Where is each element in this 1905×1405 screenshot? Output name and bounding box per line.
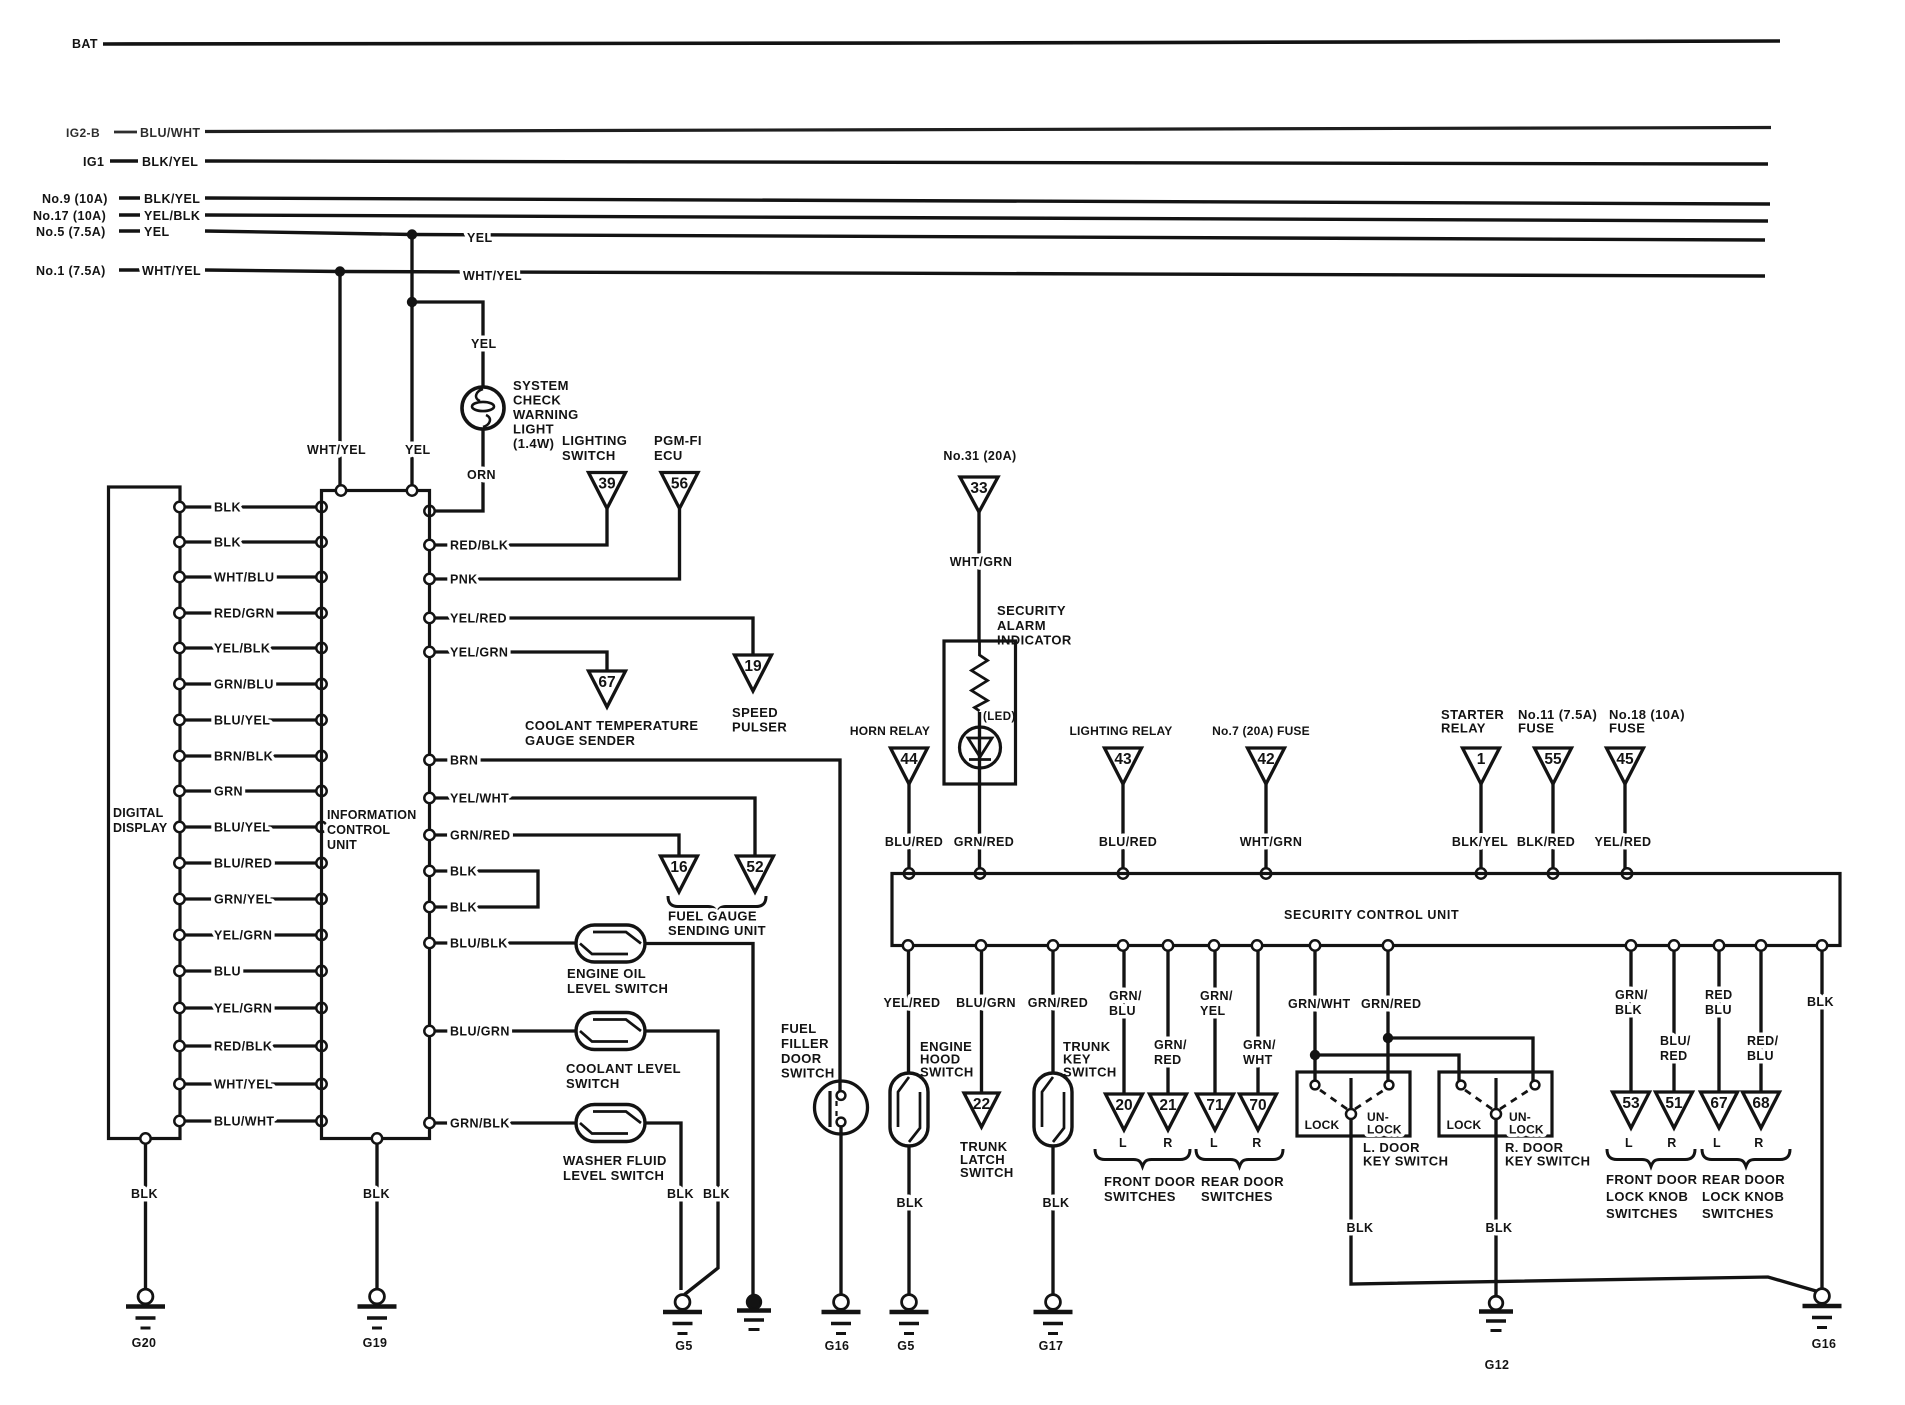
- wire BLU/RED to connector 51: [1660, 940, 1691, 1092]
- svg-text:BLU/WHT: BLU/WHT: [214, 1115, 274, 1129]
- svg-text:WHT/GRN: WHT/GRN: [950, 555, 1013, 569]
- svg-text:BLU/BLK: BLU/BLK: [450, 937, 508, 951]
- svg-text:53: 53: [1622, 1095, 1640, 1112]
- svg-text:R: R: [1252, 1136, 1261, 1150]
- svg-text:67: 67: [1710, 1095, 1727, 1112]
- svg-text:44: 44: [900, 751, 918, 768]
- wire BLK L door key to G16: [1347, 1119, 1816, 1291]
- svg-text:BLK: BLK: [897, 1196, 924, 1210]
- svg-text:WARNING: WARNING: [513, 407, 579, 422]
- svg-text:YEL/GRN: YEL/GRN: [214, 1002, 272, 1016]
- svg-text:BLU: BLU: [1109, 1004, 1136, 1018]
- svg-text:LOCK: LOCK: [1305, 1118, 1340, 1132]
- wire BLU/YEL display-to-ICU row: [174, 821, 326, 835]
- connector 20 front door switch L: [1106, 1094, 1143, 1150]
- svg-text:LIGHT: LIGHT: [513, 422, 554, 437]
- wire GRN/BLU to connector 20: [1109, 940, 1142, 1094]
- svg-text:YEL/BLK: YEL/BLK: [144, 209, 200, 223]
- wire BLU/RED display-to-ICU row: [174, 857, 326, 871]
- connector 51 front door lock knob R: [1656, 1092, 1693, 1150]
- brace front door lock knob switches: [1606, 1149, 1698, 1221]
- wire WHT/YEL display-to-ICU row: [174, 1078, 326, 1092]
- svg-text:FUSE: FUSE: [1609, 721, 1645, 736]
- svg-text:SWITCH: SWITCH: [1063, 1065, 1117, 1080]
- wire YEL/GRN display-to-ICU row: [174, 1002, 326, 1016]
- svg-text:ECU: ECU: [654, 448, 683, 463]
- svg-text:SWITCH: SWITCH: [781, 1066, 835, 1081]
- svg-text:BLU: BLU: [1705, 1003, 1732, 1017]
- svg-text:BLU/GRN: BLU/GRN: [450, 1025, 510, 1039]
- svg-text:YEL/RED: YEL/RED: [884, 996, 941, 1010]
- brace front door switches: [1095, 1149, 1196, 1204]
- wire BRN/BLK display-to-ICU row: [174, 750, 326, 764]
- LED: [960, 711, 1016, 874]
- svg-text:LOCK KNOB: LOCK KNOB: [1702, 1189, 1784, 1204]
- svg-text:BLK: BLK: [363, 1187, 390, 1201]
- svg-text:COOLANT LEVEL: COOLANT LEVEL: [566, 1061, 681, 1076]
- label No.7 (20A) fuse: [1212, 724, 1310, 738]
- svg-text:SWITCH: SWITCH: [960, 1165, 1014, 1180]
- connector 22 trunk latch switch: [964, 1093, 999, 1127]
- security alarm indicator box: [944, 641, 1016, 784]
- svg-text:39: 39: [598, 476, 616, 493]
- svg-text:BLU: BLU: [1747, 1049, 1774, 1063]
- svg-text:HORN RELAY: HORN RELAY: [850, 724, 930, 738]
- svg-text:G16: G16: [825, 1339, 850, 1353]
- node No.1 (7.5A) fuse: [36, 264, 201, 278]
- svg-text:RED: RED: [1154, 1053, 1182, 1067]
- svg-text:BLU/RED: BLU/RED: [1099, 835, 1157, 849]
- svg-text:YEL: YEL: [405, 443, 431, 457]
- wire YEL/GRN display-to-ICU row: [174, 929, 326, 943]
- svg-text:BLU: BLU: [214, 965, 241, 979]
- svg-text:WHT/BLU: WHT/BLU: [214, 571, 274, 585]
- svg-text:FRONT DOOR: FRONT DOOR: [1606, 1172, 1698, 1187]
- wire YEL branch to warning light: [412, 302, 497, 388]
- svg-text:DISPLAY: DISPLAY: [113, 821, 168, 835]
- label No.18 (10A) fuse: [1609, 707, 1685, 736]
- svg-text:68: 68: [1752, 1095, 1770, 1112]
- wire PNK to PGM-FI ECU: [424, 509, 679, 587]
- label L door key switch: [1363, 1140, 1448, 1169]
- svg-text:KEY SWITCH: KEY SWITCH: [1505, 1154, 1590, 1169]
- svg-text:RED/BLK: RED/BLK: [214, 1040, 272, 1054]
- svg-text:70: 70: [1249, 1097, 1266, 1114]
- svg-text:PULSER: PULSER: [732, 720, 787, 735]
- svg-text:IG1: IG1: [83, 155, 104, 169]
- wire No.5 YEL bus: [205, 231, 1765, 245]
- svg-text:R: R: [1754, 1136, 1763, 1150]
- wire YEL/RED to engine hood switch: [884, 940, 941, 1073]
- svg-text:GRN/WHT: GRN/WHT: [1288, 997, 1351, 1011]
- svg-text:SENDING UNIT: SENDING UNIT: [668, 923, 766, 938]
- ground G5: [663, 1295, 702, 1353]
- svg-text:BLK: BLK: [1486, 1221, 1513, 1235]
- svg-text:DOOR: DOOR: [781, 1051, 822, 1066]
- svg-text:BLK: BLK: [1043, 1196, 1070, 1210]
- svg-text:YEL/RED: YEL/RED: [450, 612, 507, 626]
- svg-text:BLU/: BLU/: [1660, 1034, 1691, 1048]
- ground G16: [822, 1295, 861, 1353]
- svg-text:LOCK: LOCK: [1367, 1123, 1402, 1137]
- svg-text:FILLER: FILLER: [781, 1036, 829, 1051]
- wire BLU/YEL display-to-ICU row: [174, 714, 326, 728]
- svg-text:SECURITY: SECURITY: [997, 603, 1066, 618]
- switch L door key: [1297, 1072, 1410, 1137]
- junction WHT/YEL tap: [335, 266, 345, 276]
- wire IG2-B BLU/WHT bus: [205, 128, 1771, 132]
- svg-text:L: L: [1713, 1136, 1721, 1150]
- wire BLU display-to-ICU row: [174, 965, 326, 979]
- svg-text:SYSTEM: SYSTEM: [513, 378, 569, 393]
- svg-text:BLK: BLK: [667, 1187, 694, 1201]
- svg-text:SWITCHES: SWITCHES: [1201, 1189, 1273, 1204]
- node BAT: [72, 37, 98, 51]
- svg-text:G5: G5: [675, 1339, 692, 1353]
- wire YEL/GRN to coolant temperature sender: [424, 646, 607, 672]
- brace rear door switches: [1196, 1149, 1284, 1204]
- connector 55 fuse: [1535, 748, 1572, 784]
- security control unit box: [892, 874, 1840, 946]
- node No.9 (10A) fuse: [42, 192, 200, 206]
- svg-text:YEL/WHT: YEL/WHT: [450, 792, 509, 806]
- ground (engine oil level switch): [737, 1295, 771, 1329]
- resistor: [972, 641, 988, 711]
- svg-text:YEL: YEL: [471, 337, 497, 351]
- wire GRN/YEL display-to-ICU row: [174, 893, 326, 907]
- svg-text:ENGINE OIL: ENGINE OIL: [567, 966, 646, 981]
- svg-text:YEL: YEL: [1200, 1004, 1226, 1018]
- svg-text:WASHER FLUID: WASHER FLUID: [563, 1153, 667, 1168]
- svg-text:BLU/WHT: BLU/WHT: [140, 126, 200, 140]
- wire GRN/RED to door key switches: [1361, 940, 1533, 1081]
- connector 44 horn relay: [891, 748, 928, 784]
- svg-text:SWITCH: SWITCH: [920, 1065, 974, 1080]
- information control unit box: [322, 485, 430, 1138]
- svg-text:RED/GRN: RED/GRN: [214, 607, 274, 621]
- ground G20: [126, 1133, 165, 1350]
- wire IG1 BLK/YEL bus: [205, 161, 1768, 164]
- wire GRN/WHT to door key switches: [1288, 940, 1459, 1081]
- wire GRN/RED to trunk key switch: [1028, 940, 1088, 1073]
- svg-text:BLK: BLK: [1615, 1003, 1642, 1017]
- wire GRN/RED to fuel gauge: [424, 829, 679, 857]
- connector 33: [960, 477, 998, 512]
- connector 53 front door lock knob L: [1613, 1092, 1650, 1150]
- svg-text:GRN/RED: GRN/RED: [1028, 996, 1088, 1010]
- svg-text:19: 19: [744, 658, 762, 675]
- svg-text:LEVEL SWITCH: LEVEL SWITCH: [567, 981, 668, 996]
- wire GRN/YEL to connector 71: [1200, 940, 1233, 1094]
- wire ORN lamp to control unit: [424, 429, 496, 516]
- wire BLK jumper: [424, 865, 538, 915]
- svg-text:33: 33: [970, 480, 988, 497]
- wire No.17 YEL/BLK bus: [205, 215, 1768, 221]
- svg-text:R: R: [1163, 1136, 1172, 1150]
- wire No.1 WHT/YEL bus: [205, 269, 1765, 283]
- svg-text:LOCK KNOB: LOCK KNOB: [1606, 1189, 1688, 1204]
- svg-text:No.31 (20A): No.31 (20A): [943, 449, 1016, 463]
- wire BLK R door key to G12: [1486, 1119, 1513, 1296]
- junction YEL tap: [407, 229, 417, 239]
- label lighting switch: [562, 433, 627, 463]
- svg-text:52: 52: [746, 859, 763, 876]
- wire YEL/RED fuse to SCU: [1595, 784, 1652, 879]
- svg-text:45: 45: [1616, 751, 1634, 768]
- svg-text:BLK: BLK: [131, 1187, 158, 1201]
- node IG2-B (faded): [66, 126, 200, 140]
- svg-text:RELAY: RELAY: [1441, 721, 1486, 736]
- wire BLU/RED horn relay to SCU: [885, 784, 943, 879]
- connector 45 fuse: [1607, 748, 1644, 784]
- svg-text:UNIT: UNIT: [327, 838, 357, 852]
- svg-text:56: 56: [671, 476, 689, 493]
- svg-text:GRN/: GRN/: [1243, 1038, 1276, 1052]
- svg-text:SWITCHES: SWITCHES: [1702, 1206, 1774, 1221]
- svg-text:LOCK: LOCK: [1447, 1118, 1482, 1132]
- svg-text:BLK/YEL: BLK/YEL: [142, 155, 198, 169]
- svg-text:22: 22: [973, 1096, 990, 1113]
- svg-text:GRN/: GRN/: [1615, 988, 1648, 1002]
- wire YEL/WHT to fuel gauge: [424, 792, 755, 857]
- svg-text:LOCK: LOCK: [1509, 1123, 1544, 1137]
- svg-text:BLU/YEL: BLU/YEL: [214, 821, 270, 835]
- wire BLK SCU to G16: [1807, 940, 1834, 1289]
- connector 71 rear door switch L: [1197, 1094, 1234, 1150]
- svg-text:L: L: [1210, 1136, 1218, 1150]
- wire BLK/YEL starter relay to SCU: [1452, 784, 1508, 879]
- svg-text:71: 71: [1206, 1097, 1224, 1114]
- connector 16 fuel gauge: [661, 856, 698, 892]
- svg-text:G19: G19: [363, 1336, 388, 1350]
- wire fuel filler switch to ground: [839, 1127, 842, 1295]
- node No.5 (7.5A) fuse: [36, 225, 170, 239]
- svg-text:BLK: BLK: [1347, 1221, 1374, 1235]
- wire RED/GRN display-to-ICU row: [174, 607, 326, 621]
- svg-text:51: 51: [1665, 1095, 1683, 1112]
- svg-text:RED: RED: [1660, 1049, 1688, 1063]
- switch engine oil level: [567, 925, 753, 1295]
- wire GRN/RED to connector 21: [1154, 940, 1187, 1094]
- wire GRN/WHT to connector 70: [1243, 940, 1276, 1094]
- svg-text:PNK: PNK: [450, 573, 478, 587]
- wire RED/BLU to connector 68: [1747, 940, 1779, 1092]
- brace rear door lock knob switches: [1702, 1149, 1790, 1221]
- wire GRN/BLU display-to-ICU row: [174, 678, 326, 692]
- svg-text:BLK: BLK: [450, 901, 477, 915]
- svg-text:GRN/: GRN/: [1200, 989, 1233, 1003]
- wire BLU/GRN to coolant level switch: [424, 1025, 578, 1039]
- svg-text:L: L: [1119, 1136, 1127, 1150]
- svg-text:INFORMATION: INFORMATION: [327, 808, 416, 822]
- switch R door key: [1439, 1072, 1552, 1137]
- connector 21 front door switch R: [1150, 1094, 1187, 1150]
- label lighting relay: [1069, 724, 1172, 738]
- digital display box: [109, 487, 181, 1139]
- svg-text:KEY SWITCH: KEY SWITCH: [1363, 1154, 1448, 1169]
- svg-text:L: L: [1625, 1136, 1633, 1150]
- wire RED BLU to connector 67: [1705, 940, 1733, 1092]
- svg-text:BAT: BAT: [72, 37, 98, 51]
- svg-text:No.5 (7.5A): No.5 (7.5A): [36, 225, 106, 239]
- svg-text:SPEED: SPEED: [732, 705, 778, 720]
- svg-text:BLK: BLK: [703, 1187, 730, 1201]
- svg-text:IG2-B: IG2-B: [66, 126, 100, 140]
- svg-text:(1.4W): (1.4W): [513, 436, 554, 451]
- wire GRN/BLK to washer fluid level switch: [424, 1117, 578, 1131]
- svg-text:GRN/: GRN/: [1154, 1038, 1187, 1052]
- switch engine hood: [890, 1073, 928, 1295]
- svg-text:No.17 (10A): No.17 (10A): [33, 209, 106, 223]
- svg-text:1: 1: [1477, 751, 1486, 768]
- wire BLU/RED lighting relay to SCU: [1099, 784, 1157, 879]
- svg-text:FUEL GAUGE: FUEL GAUGE: [668, 909, 757, 924]
- svg-text:GRN/RED: GRN/RED: [1361, 997, 1421, 1011]
- svg-text:GRN/RED: GRN/RED: [450, 829, 510, 843]
- svg-text:BLU/GRN: BLU/GRN: [956, 996, 1016, 1010]
- wire BRN to fuel filler door switch: [424, 754, 840, 1092]
- svg-text:BLK/RED: BLK/RED: [1517, 835, 1575, 849]
- wire WHT/GRN fuse to SCU: [1240, 784, 1303, 879]
- wire BLU/BLK to engine oil level switch: [424, 937, 578, 951]
- svg-text:GRN: GRN: [214, 785, 243, 799]
- wire RED/BLK to lighting switch: [424, 509, 607, 553]
- svg-text:LIGHTING RELAY: LIGHTING RELAY: [1069, 724, 1172, 738]
- svg-text:GRN/BLU: GRN/BLU: [214, 678, 274, 692]
- svg-text:WHT: WHT: [1243, 1053, 1273, 1067]
- label system check warning light: [513, 378, 579, 451]
- svg-text:BLK: BLK: [214, 501, 241, 515]
- svg-text:BLU/RED: BLU/RED: [885, 835, 943, 849]
- wire WHT/GRN to alarm indicator: [950, 512, 1013, 641]
- svg-text:SECURITY CONTROL UNIT: SECURITY CONTROL UNIT: [1284, 908, 1459, 922]
- wire RED/BLK display-to-ICU row: [174, 1040, 326, 1054]
- wire GRN/RED alarm to SCU: [954, 835, 1014, 879]
- wire YEL/RED to speed pulser: [424, 612, 753, 656]
- svg-text:BLK: BLK: [214, 536, 241, 550]
- label PGM-FI ECU: [654, 433, 702, 463]
- label security alarm indicator: [997, 603, 1072, 648]
- svg-text:FUEL: FUEL: [781, 1021, 817, 1036]
- svg-text:REAR DOOR: REAR DOOR: [1201, 1174, 1284, 1189]
- svg-text:G20: G20: [132, 1336, 157, 1350]
- svg-text:No.9 (10A): No.9 (10A): [42, 192, 108, 206]
- svg-text:PGM-FI: PGM-FI: [654, 433, 702, 448]
- svg-text:YEL: YEL: [144, 225, 170, 239]
- svg-text:R: R: [1667, 1136, 1676, 1150]
- svg-text:GRN/YEL: GRN/YEL: [214, 893, 272, 907]
- svg-text:YEL: YEL: [467, 231, 493, 245]
- ground G19: [358, 1133, 397, 1350]
- wire GRN display-to-ICU row: [174, 785, 326, 799]
- svg-text:WHT/YEL: WHT/YEL: [307, 443, 366, 457]
- label starter relay: [1441, 707, 1504, 736]
- svg-text:BLK/YEL: BLK/YEL: [1452, 835, 1508, 849]
- svg-text:RED/: RED/: [1747, 1034, 1779, 1048]
- svg-text:20: 20: [1115, 1097, 1132, 1114]
- wire YEL feed to control unit: [405, 235, 431, 492]
- svg-text:CHECK: CHECK: [513, 393, 561, 408]
- svg-text:SWITCH: SWITCH: [562, 448, 616, 463]
- wire YEL/BLK display-to-ICU row: [174, 642, 326, 656]
- ground G5 (engine hood): [890, 1295, 929, 1353]
- ground G12: [1479, 1296, 1513, 1372]
- svg-text:43: 43: [1114, 751, 1132, 768]
- svg-text:FRONT DOOR: FRONT DOOR: [1104, 1174, 1196, 1189]
- connector 43 lighting relay: [1105, 748, 1142, 784]
- wire BLU/WHT display-to-ICU row: [174, 1115, 326, 1129]
- svg-text:ORN: ORN: [467, 468, 496, 482]
- connector 67 coolant temperature gauge sender: [589, 671, 626, 707]
- svg-text:GRN/RED: GRN/RED: [954, 835, 1014, 849]
- ground G17: [1034, 1295, 1073, 1353]
- svg-text:BLU/RED: BLU/RED: [214, 857, 272, 871]
- svg-text:(LED): (LED): [983, 711, 1016, 723]
- svg-text:42: 42: [1257, 751, 1274, 768]
- svg-text:DIGITAL: DIGITAL: [113, 806, 164, 820]
- svg-text:LEVEL SWITCH: LEVEL SWITCH: [563, 1168, 664, 1183]
- lamp system check warning light: [462, 387, 504, 429]
- svg-text:21: 21: [1159, 1097, 1177, 1114]
- svg-text:CONTROL: CONTROL: [327, 823, 390, 837]
- junction YEL lamp tap: [407, 297, 417, 307]
- svg-text:G12: G12: [1485, 1358, 1510, 1372]
- svg-text:REAR DOOR: REAR DOOR: [1702, 1172, 1785, 1187]
- connector 39 lighting switch: [589, 473, 626, 509]
- svg-text:YEL/RED: YEL/RED: [1595, 835, 1652, 849]
- svg-text:YEL/GRN: YEL/GRN: [450, 646, 508, 660]
- svg-text:G17: G17: [1039, 1339, 1064, 1353]
- svg-text:WHT/YEL: WHT/YEL: [214, 1078, 273, 1092]
- svg-text:RED: RED: [1705, 988, 1733, 1002]
- svg-text:No.1 (7.5A): No.1 (7.5A): [36, 264, 106, 278]
- connector 67 rear door lock knob L: [1701, 1092, 1738, 1150]
- connector 70 rear door switch R: [1240, 1094, 1277, 1150]
- label No.11 (7.5A) fuse: [1518, 707, 1597, 736]
- switch fuel filler door: [815, 1081, 868, 1134]
- wire BLK display-to-ICU row: [174, 536, 326, 550]
- svg-text:SWITCHES: SWITCHES: [1606, 1206, 1678, 1221]
- node No.31 (20A) fuse: [943, 449, 1016, 463]
- ground G16 (right): [1803, 1289, 1842, 1351]
- svg-text:RED/BLK: RED/BLK: [450, 539, 508, 553]
- svg-text:YEL/BLK: YEL/BLK: [214, 642, 270, 656]
- connector 68 rear door lock knob R: [1743, 1092, 1780, 1150]
- svg-text:G16: G16: [1812, 1337, 1837, 1351]
- label coolant temperature gauge sender: [525, 718, 698, 748]
- wire BLK/RED fuse to SCU: [1517, 784, 1575, 879]
- label speed pulser: [732, 705, 787, 735]
- svg-text:GRN/BLK: GRN/BLK: [450, 1117, 510, 1131]
- switch coolant level: [566, 1013, 730, 1295]
- svg-text:BLK: BLK: [450, 865, 477, 879]
- svg-text:BLU/YEL: BLU/YEL: [214, 714, 270, 728]
- svg-text:BRN/BLK: BRN/BLK: [214, 750, 273, 764]
- svg-text:GRN/: GRN/: [1109, 989, 1142, 1003]
- svg-text:YEL/GRN: YEL/GRN: [214, 929, 272, 943]
- label trunk key switch: [1063, 1039, 1117, 1080]
- svg-text:COOLANT TEMPERATURE: COOLANT TEMPERATURE: [525, 718, 698, 733]
- label trunk latch switch: [960, 1139, 1014, 1180]
- switch trunk key: [1034, 1073, 1072, 1295]
- svg-text:16: 16: [670, 859, 688, 876]
- connector 56 PGM-FI ECU: [661, 473, 698, 509]
- switch washer fluid level: [563, 1105, 694, 1291]
- wire BLU/GRN to trunk latch switch: [956, 940, 1016, 1093]
- wire BLK display-to-ICU row: [174, 501, 326, 515]
- label horn relay: [850, 724, 930, 738]
- svg-text:WHT/YEL: WHT/YEL: [463, 269, 522, 283]
